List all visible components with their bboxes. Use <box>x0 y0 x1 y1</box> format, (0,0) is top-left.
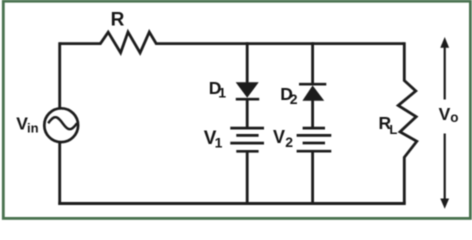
svg-text:R: R <box>111 10 125 31</box>
svg-text:2: 2 <box>290 91 298 107</box>
svg-text:1: 1 <box>215 134 223 150</box>
svg-text:in: in <box>27 120 39 135</box>
svg-text:V: V <box>273 127 285 147</box>
svg-text:o: o <box>450 110 458 125</box>
svg-text:2: 2 <box>285 134 293 150</box>
svg-text:V: V <box>439 104 451 124</box>
svg-text:1: 1 <box>218 84 226 100</box>
svg-text:L: L <box>389 122 397 137</box>
